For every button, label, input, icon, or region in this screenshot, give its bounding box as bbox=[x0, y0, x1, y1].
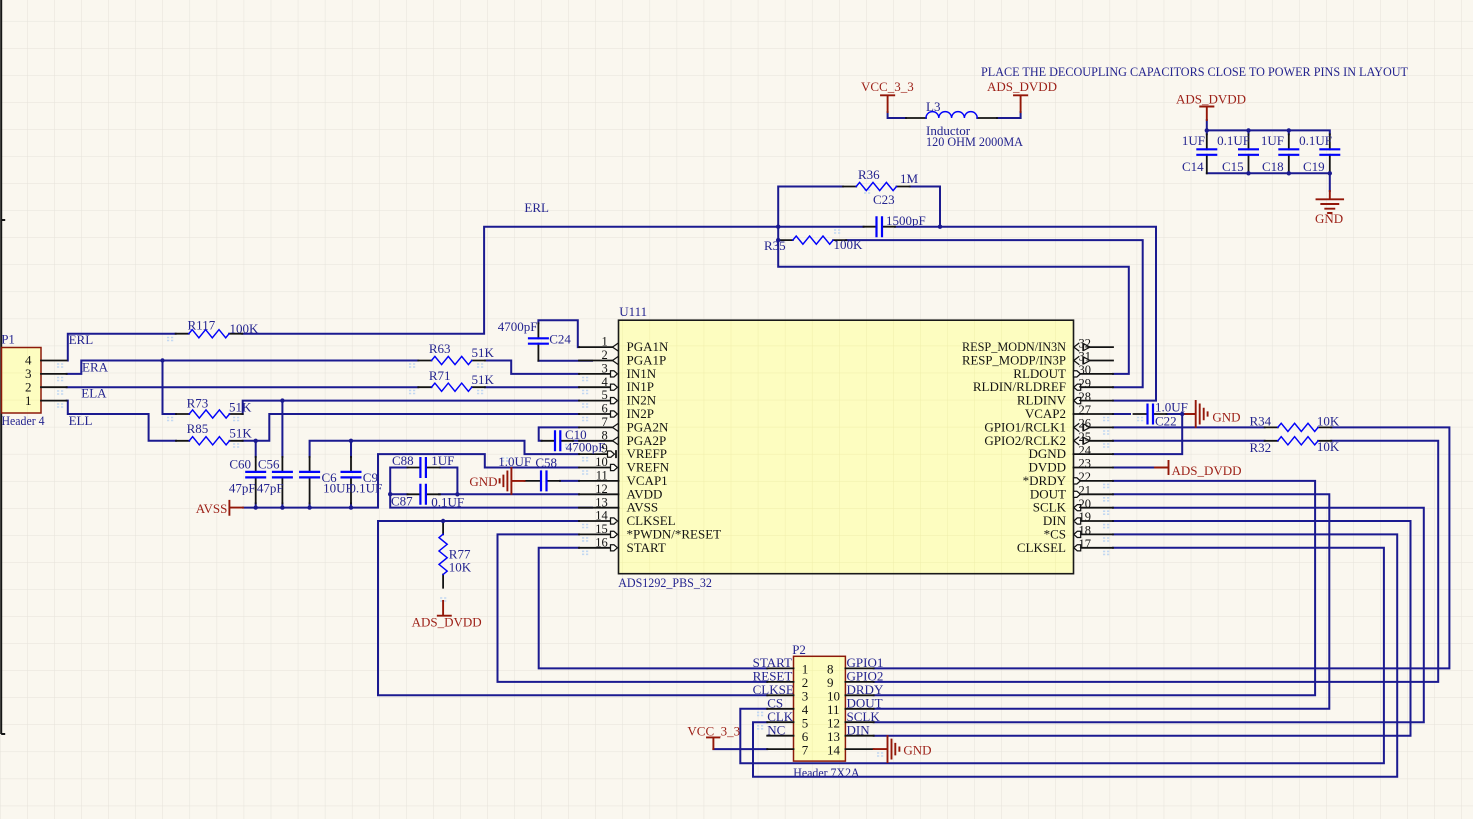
svg-text:100K: 100K bbox=[230, 321, 260, 336]
svg-text:ADS_DVDD: ADS_DVDD bbox=[1172, 463, 1242, 478]
svg-text:C60: C60 bbox=[229, 457, 251, 472]
svg-text:47pF: 47pF bbox=[257, 481, 284, 496]
svg-text:ELA: ELA bbox=[81, 386, 107, 401]
svg-text:13: 13 bbox=[595, 495, 608, 509]
svg-text:ADS_DVDD: ADS_DVDD bbox=[412, 615, 482, 630]
svg-text:GND: GND bbox=[1212, 409, 1240, 424]
svg-text:21: 21 bbox=[1079, 483, 1092, 497]
svg-text:R71: R71 bbox=[429, 368, 451, 383]
svg-text:C14: C14 bbox=[1182, 159, 1204, 174]
svg-text:C88: C88 bbox=[392, 453, 414, 468]
svg-text:9: 9 bbox=[602, 442, 608, 456]
svg-text:C22: C22 bbox=[1155, 414, 1177, 429]
svg-text:1: 1 bbox=[25, 393, 32, 408]
svg-text:R85: R85 bbox=[187, 421, 209, 436]
svg-text:U111: U111 bbox=[619, 304, 647, 319]
svg-text:C15: C15 bbox=[1222, 159, 1244, 174]
svg-text:ERL: ERL bbox=[69, 332, 94, 347]
svg-text:5: 5 bbox=[602, 388, 608, 402]
svg-text:ELL: ELL bbox=[69, 413, 93, 428]
svg-text:17: 17 bbox=[1079, 537, 1092, 551]
svg-text:C58: C58 bbox=[535, 455, 557, 470]
svg-text:47pF: 47pF bbox=[229, 481, 256, 496]
svg-text:32: 32 bbox=[1079, 336, 1092, 350]
svg-text:GND: GND bbox=[469, 474, 497, 489]
svg-text:3: 3 bbox=[602, 361, 608, 375]
svg-text:VCC_3_3: VCC_3_3 bbox=[687, 724, 740, 739]
svg-text:10UF: 10UF bbox=[323, 481, 353, 496]
svg-text:R73: R73 bbox=[187, 396, 209, 411]
svg-text:2: 2 bbox=[602, 348, 608, 362]
svg-text:ADS_DVDD: ADS_DVDD bbox=[987, 79, 1057, 94]
svg-text:27: 27 bbox=[1079, 403, 1092, 417]
svg-text:GND: GND bbox=[1315, 211, 1343, 226]
svg-text:10K: 10K bbox=[1317, 439, 1340, 454]
svg-text:GND: GND bbox=[903, 743, 931, 758]
svg-text:24: 24 bbox=[1079, 443, 1092, 457]
svg-text:7: 7 bbox=[802, 742, 809, 757]
svg-text:AVSS: AVSS bbox=[196, 501, 228, 516]
svg-text:R34: R34 bbox=[1250, 414, 1272, 429]
svg-text:0.1UF: 0.1UF bbox=[431, 494, 464, 509]
svg-text:100K: 100K bbox=[834, 237, 864, 252]
svg-text:C24: C24 bbox=[549, 332, 571, 347]
svg-text:R32: R32 bbox=[1250, 440, 1272, 455]
svg-text:P1: P1 bbox=[1, 331, 15, 346]
svg-text:1: 1 bbox=[602, 335, 608, 349]
svg-text:22: 22 bbox=[1079, 470, 1092, 484]
svg-text:CLKSEL: CLKSEL bbox=[1017, 540, 1066, 555]
svg-text:C19: C19 bbox=[1303, 159, 1325, 174]
svg-text:20: 20 bbox=[1079, 497, 1092, 511]
svg-text:25: 25 bbox=[1079, 430, 1092, 444]
svg-text:19: 19 bbox=[1079, 510, 1092, 524]
svg-text:0.1UF: 0.1UF bbox=[1217, 133, 1250, 148]
svg-text:6: 6 bbox=[602, 402, 608, 416]
svg-text:0.1UF: 0.1UF bbox=[349, 481, 382, 496]
svg-text:12: 12 bbox=[595, 482, 608, 496]
svg-text:51K: 51K bbox=[472, 372, 495, 387]
svg-text:4: 4 bbox=[602, 375, 609, 389]
svg-text:1.0UF: 1.0UF bbox=[1155, 400, 1188, 415]
svg-text:ERL: ERL bbox=[524, 200, 549, 215]
svg-text:10: 10 bbox=[595, 455, 608, 469]
svg-text:1UF: 1UF bbox=[1182, 133, 1205, 148]
svg-text:Header 7X2A: Header 7X2A bbox=[793, 765, 860, 780]
svg-text:30: 30 bbox=[1079, 363, 1092, 377]
svg-text:14: 14 bbox=[595, 509, 608, 523]
svg-text:R117: R117 bbox=[188, 318, 216, 333]
svg-text:16: 16 bbox=[595, 535, 608, 549]
svg-text:ERA: ERA bbox=[82, 360, 109, 375]
svg-text:4700pF: 4700pF bbox=[566, 439, 606, 454]
svg-text:VCC_3_3: VCC_3_3 bbox=[861, 79, 914, 94]
svg-text:C56: C56 bbox=[258, 457, 280, 472]
svg-text:11: 11 bbox=[596, 469, 608, 483]
svg-text:29: 29 bbox=[1079, 376, 1092, 390]
svg-text:18: 18 bbox=[1079, 524, 1092, 538]
svg-text:120 OHM 2000MA: 120 OHM 2000MA bbox=[926, 134, 1024, 149]
svg-text:DIN: DIN bbox=[847, 722, 871, 737]
svg-text:1M: 1M bbox=[900, 171, 919, 186]
svg-text:28: 28 bbox=[1079, 390, 1092, 404]
svg-text:R63: R63 bbox=[429, 341, 451, 356]
svg-text:C23: C23 bbox=[873, 192, 895, 207]
svg-text:10K: 10K bbox=[1317, 414, 1340, 429]
svg-text:8: 8 bbox=[602, 428, 608, 442]
svg-text:START: START bbox=[627, 540, 666, 555]
svg-text:51K: 51K bbox=[472, 345, 495, 360]
svg-text:C18: C18 bbox=[1262, 159, 1284, 174]
svg-text:PLACE THE DECOUPLING CAPACITOR: PLACE THE DECOUPLING CAPACITORS CLOSE TO… bbox=[981, 64, 1408, 79]
svg-text:0.1UF: 0.1UF bbox=[1299, 133, 1332, 148]
svg-text:1UF: 1UF bbox=[431, 453, 454, 468]
svg-text:26: 26 bbox=[1079, 417, 1092, 431]
svg-text:1.0UF: 1.0UF bbox=[498, 454, 531, 469]
svg-text:R35: R35 bbox=[764, 238, 786, 253]
svg-text:15: 15 bbox=[595, 522, 608, 536]
svg-text:31: 31 bbox=[1079, 350, 1092, 364]
svg-text:ADS_DVDD: ADS_DVDD bbox=[1176, 92, 1246, 107]
svg-text:10K: 10K bbox=[449, 560, 472, 575]
svg-text:7: 7 bbox=[602, 415, 608, 429]
svg-text:1500pF: 1500pF bbox=[886, 213, 926, 228]
svg-text:1UF: 1UF bbox=[1261, 133, 1284, 148]
svg-text:ADS1292_PBS_32: ADS1292_PBS_32 bbox=[618, 575, 712, 590]
svg-text:23: 23 bbox=[1079, 457, 1092, 471]
svg-text:C87: C87 bbox=[391, 494, 413, 509]
svg-text:51K: 51K bbox=[229, 400, 252, 415]
svg-text:51K: 51K bbox=[229, 426, 252, 441]
svg-text:14: 14 bbox=[827, 742, 841, 757]
svg-text:Header 4: Header 4 bbox=[2, 413, 45, 428]
svg-text:L3: L3 bbox=[926, 99, 940, 114]
svg-text:P2: P2 bbox=[792, 642, 806, 657]
svg-text:4700pF: 4700pF bbox=[498, 319, 538, 334]
svg-text:R36: R36 bbox=[858, 167, 880, 182]
